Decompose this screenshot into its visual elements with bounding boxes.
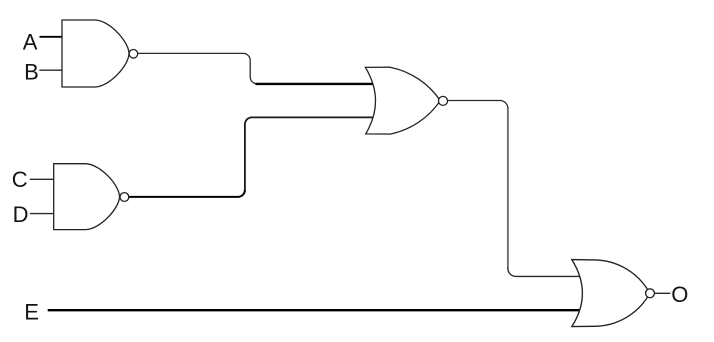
svg-text:D: D (13, 202, 29, 227)
wire A input (40, 36, 63, 38)
svg-text:E: E (24, 299, 39, 324)
wire node N2 vertical into U3 bottom input (245, 117, 381, 190)
wire node N3 into U4 top input (508, 268, 590, 277)
wire D input (30, 213, 54, 215)
wire U4 output to O (654, 292, 670, 294)
NOR gate U3 (365, 67, 440, 134)
NAND gate U2 (54, 164, 120, 230)
bubble U4 (646, 289, 655, 298)
NAND gate U1 (62, 20, 129, 87)
wire E input (48, 309, 590, 311)
svg-text:C: C (12, 167, 28, 192)
bubble U1 (129, 50, 138, 59)
NOR gate U4 (572, 260, 650, 327)
wire U3 output to corner (448, 101, 508, 109)
bubble U2 (120, 193, 129, 202)
wire U2 output to corner (129, 190, 245, 197)
svg-text:A: A (23, 29, 38, 54)
wire node N3 vertical (507, 108, 509, 269)
bubble U3 (439, 96, 448, 105)
svg-text:B: B (24, 60, 39, 85)
svg-text:O: O (671, 282, 688, 307)
wire B input (39, 69, 62, 71)
wire U1 output to corner (138, 53, 258, 84)
wire C input (30, 178, 54, 180)
wire node N1 into U3 top input (256, 83, 382, 85)
